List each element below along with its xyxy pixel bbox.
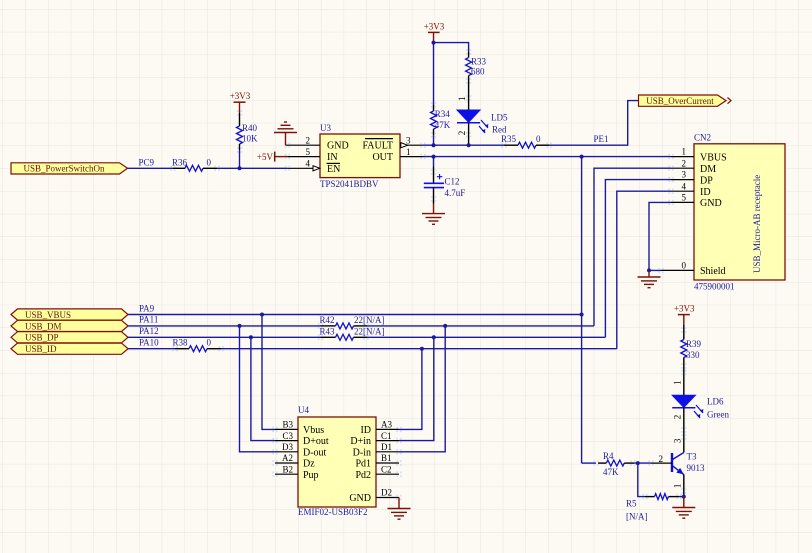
wire +3V3 junction down to R34 [433, 43, 435, 105]
svg-text:B1: B1 [381, 453, 392, 463]
junction R34/FAULT [432, 143, 436, 147]
connector CN2 body [694, 133, 785, 292]
svg-text:C1: C1 [381, 431, 392, 441]
wire R40 to junction [239, 150, 241, 168]
power +5V at U3 pin5 [257, 152, 287, 163]
pin 3 FAULT of U3 [362, 135, 423, 151]
resistor R34 [431, 105, 451, 135]
svg-text:DM: DM [700, 164, 716, 175]
svg-text:R39: R39 [686, 339, 702, 349]
svg-text:2: 2 [672, 415, 682, 420]
svg-text:3: 3 [672, 438, 682, 443]
ground below T3 emitter [672, 497, 695, 519]
svg-text:10K: 10K [242, 134, 258, 144]
svg-text:USB_VBUS: USB_VBUS [25, 310, 71, 320]
port USB_OverCurrent [639, 95, 732, 106]
svg-text:3: 3 [682, 170, 687, 180]
svg-text:EN: EN [327, 164, 340, 175]
svg-text:D-out: D-out [303, 447, 327, 458]
svg-text:1: 1 [672, 484, 682, 489]
wire CN2 pin5 GND down to shield [649, 202, 671, 270]
svg-text:R42: R42 [320, 315, 335, 325]
svg-text:5: 5 [682, 193, 687, 203]
svg-text:22[N/A]: 22[N/A] [354, 326, 385, 336]
svg-text:D2: D2 [381, 488, 392, 498]
svg-text:2: 2 [682, 158, 687, 168]
wire U4 D+in up to PA12 [399, 337, 434, 440]
svg-text:R40: R40 [242, 123, 258, 133]
wire PA12 row (right of R43) [367, 336, 605, 338]
capacitor C12 [424, 157, 465, 204]
svg-text:CN2: CN2 [694, 133, 711, 143]
filter U4 body [298, 405, 376, 517]
svg-text:D3: D3 [282, 442, 293, 452]
wire PA9 row [128, 314, 582, 316]
svg-text:EMIF02-USB03F2: EMIF02-USB03F2 [298, 507, 368, 517]
svg-text:GND: GND [349, 493, 371, 504]
svg-text:2: 2 [306, 135, 311, 145]
junction vertical x581 [580, 155, 584, 159]
power +3V3 (above R39) [674, 304, 695, 325]
wire ID vertical to CN2 pin4 [617, 191, 671, 349]
svg-text:R43: R43 [320, 326, 336, 336]
junction PA12/U4 D+out [249, 335, 253, 339]
svg-text:D+out: D+out [303, 436, 329, 447]
wire x581 corner to R4 [582, 462, 596, 464]
ground (earth, up) at U3 pin2 [274, 122, 297, 145]
resistor R38 [173, 338, 222, 352]
svg-text:GND: GND [327, 141, 349, 152]
junction base/R5 [636, 461, 640, 465]
op-amp U3 body [320, 123, 400, 189]
wire R39 to LD6 [683, 363, 685, 395]
svg-text:0: 0 [682, 261, 687, 271]
svg-text:3: 3 [406, 135, 411, 145]
svg-text:USB_DP: USB_DP [25, 333, 59, 343]
svg-text:USB_PowerSwitchOn: USB_PowerSwitchOn [23, 164, 105, 174]
svg-text:47K: 47K [435, 120, 451, 130]
svg-text:Pd1: Pd1 [355, 459, 371, 470]
wire PA10 row (right of R38) [221, 348, 617, 350]
svg-text:Vbus: Vbus [303, 425, 324, 436]
svg-text:D1: D1 [381, 442, 392, 452]
svg-text:U4: U4 [298, 405, 309, 415]
LED LD6 [672, 395, 729, 420]
svg-text:USB_DM: USB_DM [25, 321, 62, 331]
svg-text:LD5: LD5 [491, 112, 508, 122]
wire DM vertical to CN2 pin2 [594, 168, 671, 326]
svg-text:IN: IN [327, 152, 338, 163]
svg-text:PA11: PA11 [139, 315, 158, 325]
svg-text:Shield: Shield [700, 266, 726, 277]
resistor R5 [626, 494, 679, 522]
svg-text:TPS2041BDBV: TPS2041BDBV [320, 179, 379, 189]
svg-text:USB_OverCurrent: USB_OverCurrent [646, 96, 714, 106]
LED LD5 [457, 110, 508, 135]
wire PA12 row (left of R43) [128, 336, 321, 338]
svg-text:475900001: 475900001 [694, 282, 735, 292]
pin 1 VBUS of CN2 [671, 147, 727, 164]
svg-text:C3: C3 [282, 431, 293, 441]
junction PA9/x581 [580, 313, 584, 317]
svg-text:47K: 47K [603, 467, 619, 477]
wire R34 to FAULT row [433, 135, 435, 145]
wire R36 to EN pin [217, 167, 287, 169]
wire OUT row (U3 pin1 to CN2 pin1) [423, 156, 671, 158]
pin D2 GND of U4 [349, 488, 399, 504]
resistor R40 [237, 113, 259, 150]
wire U4 ID up to PA10 [399, 349, 422, 430]
svg-text:PE1: PE1 [594, 134, 609, 144]
wire PA10 row (left of R38) [128, 348, 175, 350]
pin C2 Pd2 of U4 [355, 464, 399, 480]
port USB_DP [11, 332, 128, 343]
port USB_ID [11, 343, 128, 354]
junction PA9/U4 Vbus [260, 313, 264, 317]
junction PA10/U4 ID [420, 347, 424, 351]
resistor R35 [501, 134, 549, 148]
svg-text:5: 5 [306, 147, 311, 157]
svg-text:T3: T3 [687, 451, 697, 461]
pin B2 Pup of U4 [275, 464, 319, 480]
power +3V3 (above R40) [230, 91, 251, 113]
svg-text:9013: 9013 [687, 463, 706, 473]
pin 2 DM of CN2 [671, 158, 716, 175]
svg-text:D+in: D+in [350, 436, 371, 447]
wire PA11 to U4 D-out [240, 326, 276, 452]
svg-text:R33: R33 [471, 57, 487, 67]
resistor R39 [681, 325, 702, 363]
svg-text:A3: A3 [381, 420, 392, 430]
power +3V3 (above R34/R33) [424, 22, 445, 43]
resistor R36 [172, 158, 217, 172]
svg-text:1: 1 [457, 96, 467, 101]
resistor R4 [598, 451, 634, 477]
pin B3 Vbus of U4 [275, 420, 324, 436]
svg-text:VBUS: VBUS [700, 152, 727, 163]
wire PA12 to U4 D+out [251, 337, 275, 440]
svg-text:4: 4 [682, 181, 687, 191]
junction below +3V3 [432, 41, 436, 45]
svg-text:680: 680 [471, 67, 485, 77]
wire DP vertical to CN2 pin3 [605, 180, 671, 338]
junction LD5/FAULT [467, 143, 471, 147]
svg-text:C12: C12 [445, 177, 460, 187]
pin 0 Shield of CN2 [661, 261, 726, 278]
svg-text:D-in: D-in [353, 447, 371, 458]
port USB_DM [11, 320, 128, 331]
wire +3V3 junction to R33 branch [434, 43, 469, 52]
ground below shield junction [638, 270, 661, 287]
port USB_PowerSwitchOn [11, 163, 128, 174]
svg-text:LD6: LD6 [707, 397, 724, 407]
svg-text:B2: B2 [282, 464, 293, 474]
wire LD5 to FAULT row [468, 123, 470, 146]
svg-text:Dz: Dz [303, 459, 315, 470]
wire base junction down to R5 [638, 463, 645, 497]
svg-text:ID: ID [700, 187, 711, 198]
ground at U4 GND [388, 498, 411, 520]
wire R4 to T3 base [634, 462, 651, 464]
svg-text:1: 1 [406, 147, 411, 157]
svg-text:1: 1 [672, 380, 682, 385]
svg-text:+3V3: +3V3 [230, 91, 251, 101]
wire R35 to USB_OverCurrent port [549, 101, 639, 146]
ground below C12 [422, 204, 445, 225]
svg-text:PA10: PA10 [139, 338, 159, 348]
svg-text:0: 0 [207, 158, 212, 168]
resistor R42 [320, 315, 385, 329]
svg-text:PA9: PA9 [139, 303, 155, 313]
pin C1 D+in of U4 [350, 431, 399, 447]
svg-text:FAULT: FAULT [362, 141, 393, 152]
svg-text:DP: DP [700, 175, 713, 186]
pin C3 D+out of U4 [275, 431, 329, 447]
junction at R40 bottom [238, 166, 242, 170]
svg-text:Green: Green [707, 410, 729, 420]
svg-text:PC9: PC9 [139, 158, 155, 168]
wire R5 to emitter node [679, 496, 684, 498]
pin hotspot markers [170, 49, 686, 500]
svg-text:R35: R35 [501, 134, 517, 144]
svg-text:330: 330 [686, 350, 700, 360]
pin 5 GND of CN2 [671, 193, 722, 210]
svg-text:C2: C2 [381, 464, 392, 474]
pin 4 EN of U3 [287, 159, 340, 175]
wire R33 to LD5 [468, 81, 470, 110]
svg-text:[N/A]: [N/A] [626, 512, 648, 522]
svg-text:4.7uF: 4.7uF [445, 188, 466, 198]
pin 3 DP of CN2 [671, 170, 713, 187]
wire PC9 from port to R36 [128, 167, 174, 169]
svg-text:22[N/A]: 22[N/A] [354, 315, 385, 325]
pin 2 GND of U3 [286, 135, 349, 151]
svg-text:U3: U3 [320, 123, 331, 133]
svg-text:GND: GND [700, 198, 722, 209]
resistor R43 [320, 326, 385, 340]
svg-text:1: 1 [682, 147, 687, 157]
junction PA11/U4 D-out [238, 324, 242, 328]
wire U4 D-in up to PA11 [399, 326, 445, 452]
svg-text:B3: B3 [282, 420, 293, 430]
port USB_VBUS [11, 309, 128, 320]
svg-text:OUT: OUT [372, 152, 393, 163]
wire PA11 row (right of R42) [367, 325, 594, 327]
svg-text:R34: R34 [435, 109, 451, 119]
svg-text:USB_ID: USB_ID [25, 344, 57, 354]
wire PA11 row (left of R42) [128, 325, 321, 327]
pin D3 D-out of U4 [275, 442, 327, 458]
svg-text:A2: A2 [282, 453, 293, 463]
svg-text:2: 2 [457, 131, 467, 136]
junction C12 [432, 155, 436, 159]
svg-text:+3V3: +3V3 [424, 22, 445, 32]
svg-text:ID: ID [360, 425, 371, 436]
pin A2 Dz of U4 [275, 453, 315, 469]
svg-text:Pd2: Pd2 [355, 470, 371, 481]
junction shield [647, 268, 651, 272]
svg-text:R5: R5 [626, 499, 637, 509]
pin A3 ID of U4 [360, 420, 399, 436]
resistor R33 [466, 52, 487, 81]
pin 5 IN of U3 [287, 147, 337, 163]
svg-text:4: 4 [306, 159, 311, 169]
pin 4 ID of CN2 [671, 181, 711, 198]
wire FAULT row (U3 pin3 to corner) [423, 144, 504, 146]
pin 1 OUT of U3 [372, 147, 423, 163]
transistor T3 [672, 451, 705, 496]
svg-text:Pup: Pup [303, 470, 319, 481]
svg-text:0: 0 [536, 134, 541, 144]
svg-text:USB_Micro-AB receptacle: USB_Micro-AB receptacle [752, 175, 762, 273]
svg-text:R36: R36 [172, 158, 188, 168]
svg-text:0: 0 [207, 338, 212, 348]
wire LD6 to T3 collector [683, 408, 685, 453]
svg-text:+3V3: +3V3 [674, 304, 695, 314]
wire VBUS/R4 vertical x581 [581, 157, 583, 464]
junction PA11/U4 D-in [443, 324, 447, 328]
junction emitter node [682, 495, 686, 499]
wire PA9 to U4 Vbus [262, 315, 275, 430]
svg-text:R38: R38 [173, 338, 189, 348]
junction PA12/U4 D+in [432, 335, 436, 339]
pin B1 Pd1 of U4 [355, 453, 399, 469]
svg-text:+5V: +5V [257, 152, 274, 162]
svg-text:PA12: PA12 [139, 326, 159, 336]
svg-text:R4: R4 [603, 451, 614, 461]
pin D1 D-in of U4 [353, 442, 399, 458]
